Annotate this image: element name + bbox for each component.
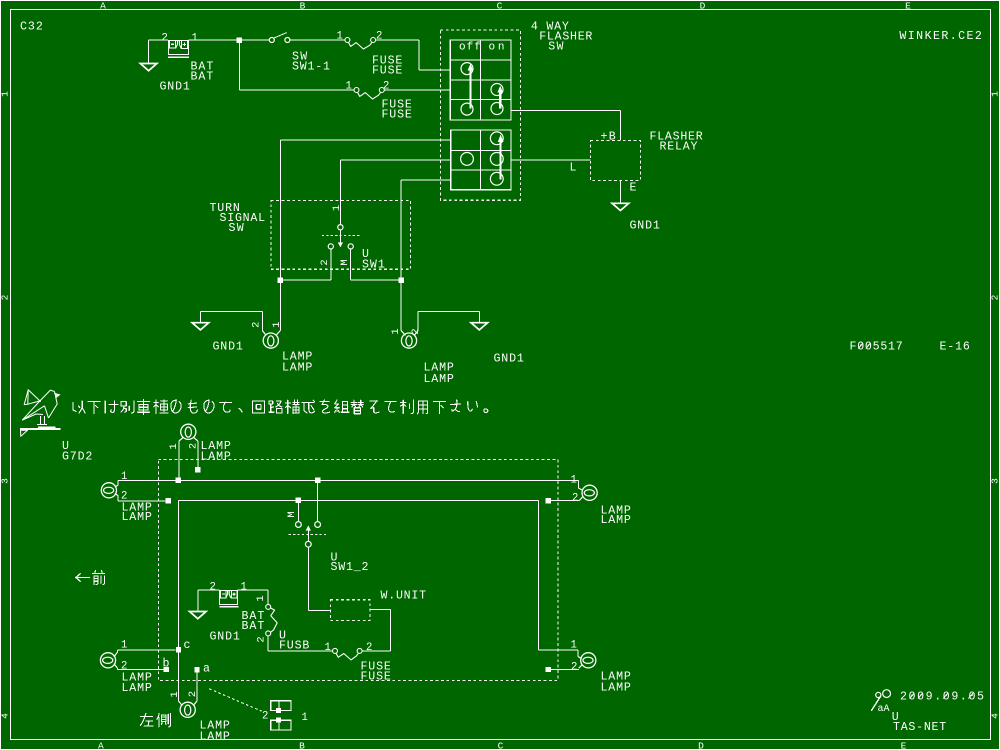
wire left node to lamp	[279, 283, 281, 331]
dashed leader to connector detail	[209, 689, 262, 712]
wire W.UNIT to fuse output	[370, 610, 390, 651]
ground GND1 relay	[612, 203, 629, 210]
W.UNIT dashed box	[330, 600, 370, 621]
svg-text:GND1: GND1	[160, 80, 190, 93]
wire lower top lamp pin2 stub	[197, 441, 199, 467]
lamp LAMP lower left	[101, 483, 116, 498]
wire flasher row1 to left turn feed	[280, 140, 450, 278]
wire fuse1 to flasher sw off pin	[376, 40, 451, 70]
svg-text:E-16: E-16	[940, 340, 970, 353]
svg-text:2: 2	[989, 294, 1000, 300]
svg-text:2: 2	[571, 662, 577, 674]
svg-text:4: 4	[0, 713, 10, 719]
wire battery pin1 to node	[189, 39, 237, 41]
switch bar off position	[469, 70, 471, 109]
wire flasher row2 to turn signal pin1	[341, 160, 451, 225]
wire right lamp pin2 to ground	[418, 312, 479, 331]
svg-text:GND1: GND1	[494, 352, 524, 365]
switch bar lower grid	[500, 142, 502, 180]
svg-text:1: 1	[571, 640, 577, 652]
svg-text:GND1: GND1	[210, 630, 240, 643]
svg-text:1: 1	[169, 691, 181, 697]
switch bar on position	[499, 92, 501, 109]
connector detail boxes	[271, 701, 291, 730]
contact circles upper grid on column	[491, 84, 503, 96]
svg-text:D: D	[698, 740, 704, 750]
wire node c down to side lamp	[178, 653, 180, 702]
net square b	[164, 667, 169, 672]
ground GND1 upper left	[140, 64, 157, 71]
junction node bus1 mid	[315, 478, 320, 483]
junction node right turn	[398, 278, 403, 283]
svg-text:1: 1	[325, 642, 331, 654]
svg-text:1: 1	[989, 91, 1000, 97]
wire node to switch SW1-1	[242, 39, 269, 41]
svg-text:BAT: BAT	[191, 70, 214, 83]
net square lower right lamp pin2	[546, 498, 551, 503]
svg-text:2: 2	[256, 636, 268, 642]
svg-text:BAT: BAT	[242, 620, 265, 633]
ground GND1 right lamp	[471, 323, 488, 330]
svg-text:2: 2	[162, 33, 168, 45]
svg-text:B: B	[300, 1, 306, 12]
svg-text:SW: SW	[229, 222, 244, 235]
wire FUSB to lower fuse	[268, 636, 332, 651]
turn signal switch SW1 contacts	[338, 225, 343, 230]
svg-text:1: 1	[168, 443, 180, 449]
wire lower right lamp pin2	[579, 497, 582, 501]
svg-text:LAMP: LAMP	[601, 681, 631, 694]
svg-text:1: 1	[0, 91, 10, 97]
fuse FUSB vertical	[266, 604, 271, 609]
junction node left turn	[278, 278, 283, 283]
lamp LAMP lower right	[582, 485, 597, 500]
svg-text:FUSB: FUSB	[279, 639, 309, 652]
lamp LAMP upper right	[401, 333, 416, 348]
svg-text:RELAY: RELAY	[660, 140, 698, 153]
wire right node to lamp	[400, 283, 402, 331]
svg-text:FUSE: FUSE	[382, 108, 412, 121]
svg-text:2: 2	[250, 322, 262, 328]
fuse FUSE lower	[333, 648, 338, 653]
svg-text:4: 4	[989, 713, 1000, 719]
svg-text:1: 1	[121, 640, 127, 652]
wire bus1 lower	[118, 480, 578, 485]
net square bottom right lamp pin2	[546, 667, 551, 672]
contact circles lower grid right	[490, 132, 503, 145]
4 way flasher switch dashed enclosure	[440, 30, 520, 200]
contact circle lower grid left	[461, 153, 474, 166]
ground GND1 lower battery	[190, 612, 207, 619]
svg-text:E: E	[630, 181, 637, 194]
svg-text:1: 1	[390, 328, 402, 334]
svg-text:1: 1	[302, 712, 308, 724]
net square lower top lamp pin2	[195, 467, 200, 472]
wire bottom right lamp pin2	[579, 665, 582, 669]
svg-text:C: C	[497, 1, 503, 12]
battery BAT upper	[168, 40, 189, 58]
svg-text:2: 2	[383, 81, 389, 93]
svg-text:E: E	[905, 1, 911, 12]
svg-text:2: 2	[319, 259, 331, 265]
wire M tap down	[297, 503, 299, 522]
wire bottom left lamp pin1 to node c	[114, 652, 117, 657]
svg-text:1: 1	[331, 205, 343, 211]
svg-text:LAMP: LAMP	[201, 450, 231, 463]
svg-text:3: 3	[0, 478, 10, 484]
svg-text:B: B	[299, 740, 305, 750]
wire turn signal pinM to right node	[351, 249, 401, 280]
svg-text:1: 1	[121, 471, 127, 483]
wire turn signal pin2 to left node	[280, 249, 331, 280]
wire bus1 to right lamp	[577, 480, 579, 488]
svg-text:+B: +B	[601, 130, 616, 143]
wire flasher sw L to relay	[511, 159, 591, 161]
wire bus2 right leg to bottom lamp	[539, 650, 578, 657]
wire relay E to ground	[619, 180, 621, 203]
svg-text:G7D2: G7D2	[62, 450, 92, 463]
svg-text:LAMP: LAMP	[200, 730, 230, 743]
wire lower fuse output	[362, 650, 390, 652]
svg-text:FUSE: FUSE	[361, 670, 391, 683]
ground GND1 left lamp	[192, 323, 209, 330]
flasher relay dashed box	[590, 140, 640, 180]
eagle watermark icon	[21, 390, 58, 437]
wire node down to fuse2	[239, 43, 354, 91]
svg-text:LAMP: LAMP	[282, 361, 312, 374]
svg-text:W.UNIT: W.UNIT	[381, 589, 427, 602]
svg-text:D: D	[700, 1, 706, 12]
fuse FUSE upper1	[345, 38, 350, 43]
wire bus1 tap down to SW1_2	[317, 483, 319, 522]
svg-text:2: 2	[572, 492, 578, 504]
svg-text:b: b	[163, 658, 170, 671]
lamp LAMP bottom right	[581, 653, 596, 668]
lamp LAMP bottom left	[100, 653, 115, 668]
svg-text:1: 1	[241, 582, 247, 594]
wire flasher output to relay +B	[511, 111, 621, 141]
svg-text:2: 2	[366, 642, 372, 654]
svg-text:1: 1	[255, 595, 267, 601]
svg-text:1: 1	[346, 81, 352, 93]
svg-text:L: L	[570, 161, 577, 174]
wire lower left lamp pin2	[115, 494, 118, 496]
svg-text:LAMP: LAMP	[122, 682, 152, 695]
svg-text:LAMP: LAMP	[424, 373, 454, 386]
svg-text:FLASHER: FLASHER	[539, 30, 592, 43]
wire lower battery pin1 to FUSB	[238, 590, 269, 604]
net square a	[194, 667, 199, 672]
turn signal switch dashed enclosure	[271, 201, 411, 270]
wire SW1_2 common to W.UNIT	[308, 547, 330, 610]
junction node bus1 left	[176, 478, 181, 483]
svg-text:E: E	[901, 740, 907, 750]
svg-text:GND1: GND1	[213, 340, 243, 353]
svg-text:GND1: GND1	[630, 219, 660, 232]
contact circles upper grid off column	[461, 63, 473, 75]
notice text japanese	[73, 401, 85, 413]
lamp LAMP side marker	[180, 702, 195, 717]
svg-text:C32: C32	[20, 21, 43, 34]
slashed zeros date	[910, 693, 973, 698]
svg-text:c: c	[184, 639, 191, 652]
svg-text:1: 1	[271, 322, 283, 328]
junction node battery feed	[237, 37, 242, 42]
svg-text:3: 3	[989, 478, 1000, 484]
svg-text:WINKER.CE2: WINKER.CE2	[899, 30, 982, 43]
svg-text:2: 2	[187, 691, 199, 697]
svg-text:SW1: SW1	[362, 258, 385, 271]
wire lower top lamp pin1 to bus	[178, 441, 180, 478]
label front arrow	[76, 574, 89, 581]
svg-text:C: C	[498, 740, 504, 750]
wire flasher row3 to right turn feed	[401, 180, 451, 278]
svg-text:2: 2	[210, 582, 216, 594]
wire left lamp pin2 to ground	[200, 312, 262, 331]
svg-text:1: 1	[192, 33, 198, 45]
svg-text:A: A	[98, 740, 104, 750]
wire fuse2 to flasher sw on pin	[384, 89, 450, 91]
fuse FUSE upper2	[354, 88, 359, 93]
wire bottom left lamp pin2 to node b	[114, 664, 117, 668]
svg-text:2: 2	[376, 31, 382, 43]
junction node c	[176, 647, 181, 652]
svg-text:LAMP: LAMP	[601, 514, 631, 527]
switch SW1-1	[269, 38, 274, 43]
junction node bus2 M tap	[296, 498, 301, 503]
battery BAT lower	[219, 590, 238, 608]
flasher switch lower contact grid	[451, 130, 511, 190]
svg-text:2009.09.05: 2009.09.05	[900, 690, 984, 703]
TAS-NET signature mark	[876, 692, 881, 697]
svg-text:A: A	[100, 1, 106, 12]
svg-text:SW1_2: SW1_2	[331, 561, 369, 574]
label left side	[141, 713, 154, 726]
switch SW1_2 contacts	[296, 522, 302, 528]
svg-text:FUSE: FUSE	[372, 64, 402, 77]
svg-text:TAS-NET: TAS-NET	[893, 721, 946, 734]
svg-text:2: 2	[0, 294, 10, 300]
svg-text:aA: aA	[878, 704, 890, 715]
wire lower battery pin2 to ground	[198, 590, 220, 612]
flasher switch upper contact grid	[450, 40, 511, 120]
svg-text:off: off	[459, 42, 481, 54]
svg-text:2: 2	[262, 711, 268, 723]
svg-text:M: M	[286, 511, 298, 517]
wire bus2 lower	[179, 500, 539, 649]
svg-text:SW1-1: SW1-1	[292, 60, 330, 73]
lamp LAMP lower top	[181, 424, 196, 439]
svg-text:a: a	[203, 663, 210, 676]
svg-text:F005517: F005517	[850, 340, 903, 353]
svg-text:1: 1	[571, 475, 577, 487]
svg-text:M: M	[339, 259, 351, 265]
slashed zeros F005517	[858, 343, 870, 348]
wire node a down to side lamp	[196, 672, 198, 701]
lamp LAMP upper left	[263, 333, 278, 348]
wire battery pin2 to ground	[149, 40, 169, 64]
svg-text:1: 1	[337, 31, 343, 43]
net square lower left lamp pin2	[166, 498, 171, 503]
svg-text:SW: SW	[548, 40, 563, 53]
svg-text:LAMP: LAMP	[122, 511, 152, 524]
dashed harness enclosure lower	[158, 459, 558, 680]
wire switch to fuse1	[290, 39, 345, 41]
